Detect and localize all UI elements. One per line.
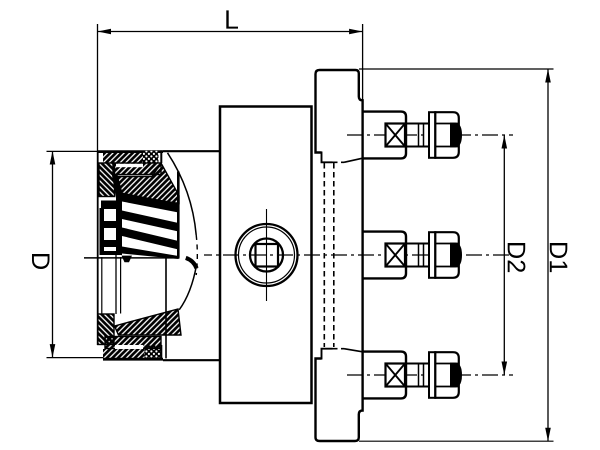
- collet ladder bar B: [112, 175, 122, 256]
- collet cone lower curve: [179, 265, 196, 310]
- collet ladder rung 2: [104, 240, 116, 247]
- collet slot stripe 2: [122, 211, 179, 232]
- ball nose arc solid: [168, 153, 197, 235]
- center hub ring: [239, 227, 295, 283]
- bolt bottom centerline: [347, 374, 513, 376]
- nut cone top: [115, 163, 180, 204]
- center hub outer circle: [236, 224, 298, 286]
- nut right edge top: [177, 172, 180, 258]
- nut bottom section edge: [165, 255, 167, 358]
- collet slot stripe 1: [122, 193, 179, 213]
- ball nose arc dashed apex: [196, 235, 197, 275]
- flange hub step bottom: [322, 349, 333, 360]
- neck bottom line: [103, 358, 163, 361]
- L extension line right: [362, 24, 364, 101]
- collet bottom cone wedge: [115, 309, 182, 335]
- flange hidden edge 2: [333, 163, 335, 347]
- collet ladder rung 1: [104, 221, 116, 228]
- center hub inner circle: [250, 239, 283, 272]
- center hub vertical crosshair: [266, 209, 268, 301]
- D extension lines: [47, 150, 98, 152]
- neck top line: [98, 150, 164, 153]
- bolt top: [363, 112, 462, 159]
- collet tip wedge: [122, 256, 133, 263]
- center hub square: [256, 244, 279, 267]
- main centerline: [204, 254, 513, 256]
- collet slot stripe 4: [122, 247, 179, 260]
- flange taper top: [344, 158, 363, 162]
- nut bottom band 2: [105, 337, 161, 350]
- nut band 2 top: [113, 163, 161, 175]
- D1 extension bottom: [359, 440, 554, 442]
- collet ladder top block: [101, 201, 116, 210]
- L extension line left: [97, 24, 99, 151]
- nut left column top: [99, 163, 115, 197]
- nut bottom left block: [98, 314, 114, 345]
- dimension D2 line: [502, 135, 526, 375]
- flange taper bottom: [344, 349, 363, 352]
- nut bottom cap band: [103, 345, 162, 360]
- D1 extension top: [359, 68, 554, 70]
- flange hidden edge 1: [323, 163, 325, 347]
- collet nut left face: [97, 151, 99, 345]
- flange outline: [316, 70, 363, 441]
- collet ladder rung 3: [104, 251, 116, 255]
- collet cone corner hook: [186, 258, 197, 268]
- dimension D1 line: [545, 69, 567, 441]
- bolt top centerline: [347, 134, 513, 136]
- collet slot stripe 3: [122, 228, 179, 250]
- collet bore edge: [115, 255, 117, 314]
- flange hub step top: [322, 152, 333, 163]
- collet ladder bar A: [100, 208, 105, 255]
- bolt middle: [363, 232, 462, 279]
- bolt bottom: [363, 352, 462, 399]
- dimension D line: [32, 151, 55, 358]
- nut cap band top: [103, 150, 161, 163]
- collet bore line: [84, 257, 180, 259]
- body cylinder: [220, 107, 312, 404]
- collet inner face line: [101, 257, 103, 314]
- dimension L line: [98, 10, 363, 34]
